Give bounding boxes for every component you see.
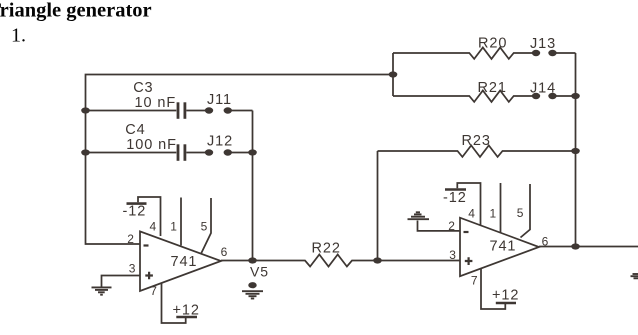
svg-text:R22: R22 <box>312 241 341 257</box>
svg-text:4: 4 <box>468 206 475 220</box>
svg-text:J11: J11 <box>207 92 232 108</box>
svg-text:J14: J14 <box>530 80 556 96</box>
svg-text:6: 6 <box>221 245 228 259</box>
svg-text:-12: -12 <box>443 190 467 206</box>
svg-text:R20: R20 <box>478 36 507 52</box>
svg-text:741: 741 <box>171 254 198 270</box>
svg-text:5: 5 <box>201 220 208 234</box>
svg-text:5: 5 <box>517 206 524 220</box>
svg-text:100 nF: 100 nF <box>126 137 177 153</box>
svg-text:C3: C3 <box>133 80 153 96</box>
svg-text:7: 7 <box>150 284 157 298</box>
svg-text:V5: V5 <box>250 264 269 280</box>
svg-text:10 nF: 10 nF <box>135 95 177 111</box>
svg-text:R23: R23 <box>462 133 491 149</box>
svg-text:7: 7 <box>471 273 478 287</box>
svg-text:C4: C4 <box>125 122 145 138</box>
svg-text:Triangle generator: Triangle generator <box>0 0 152 22</box>
svg-text:3: 3 <box>129 262 136 276</box>
svg-text:+12: +12 <box>173 303 200 319</box>
svg-text:1.: 1. <box>11 25 26 47</box>
svg-text:3: 3 <box>449 248 456 262</box>
svg-text:J12: J12 <box>207 133 233 149</box>
svg-text:1: 1 <box>490 206 497 220</box>
svg-text:+12: +12 <box>492 288 519 304</box>
svg-text:1: 1 <box>170 220 177 234</box>
svg-text:-12: -12 <box>123 204 147 220</box>
svg-text:R21: R21 <box>478 80 507 96</box>
svg-text:2: 2 <box>448 219 455 233</box>
svg-text:6: 6 <box>542 235 549 249</box>
svg-text:J13: J13 <box>530 36 556 52</box>
svg-text:2: 2 <box>127 232 134 246</box>
svg-text:741: 741 <box>490 238 517 254</box>
svg-text:4: 4 <box>150 220 157 234</box>
